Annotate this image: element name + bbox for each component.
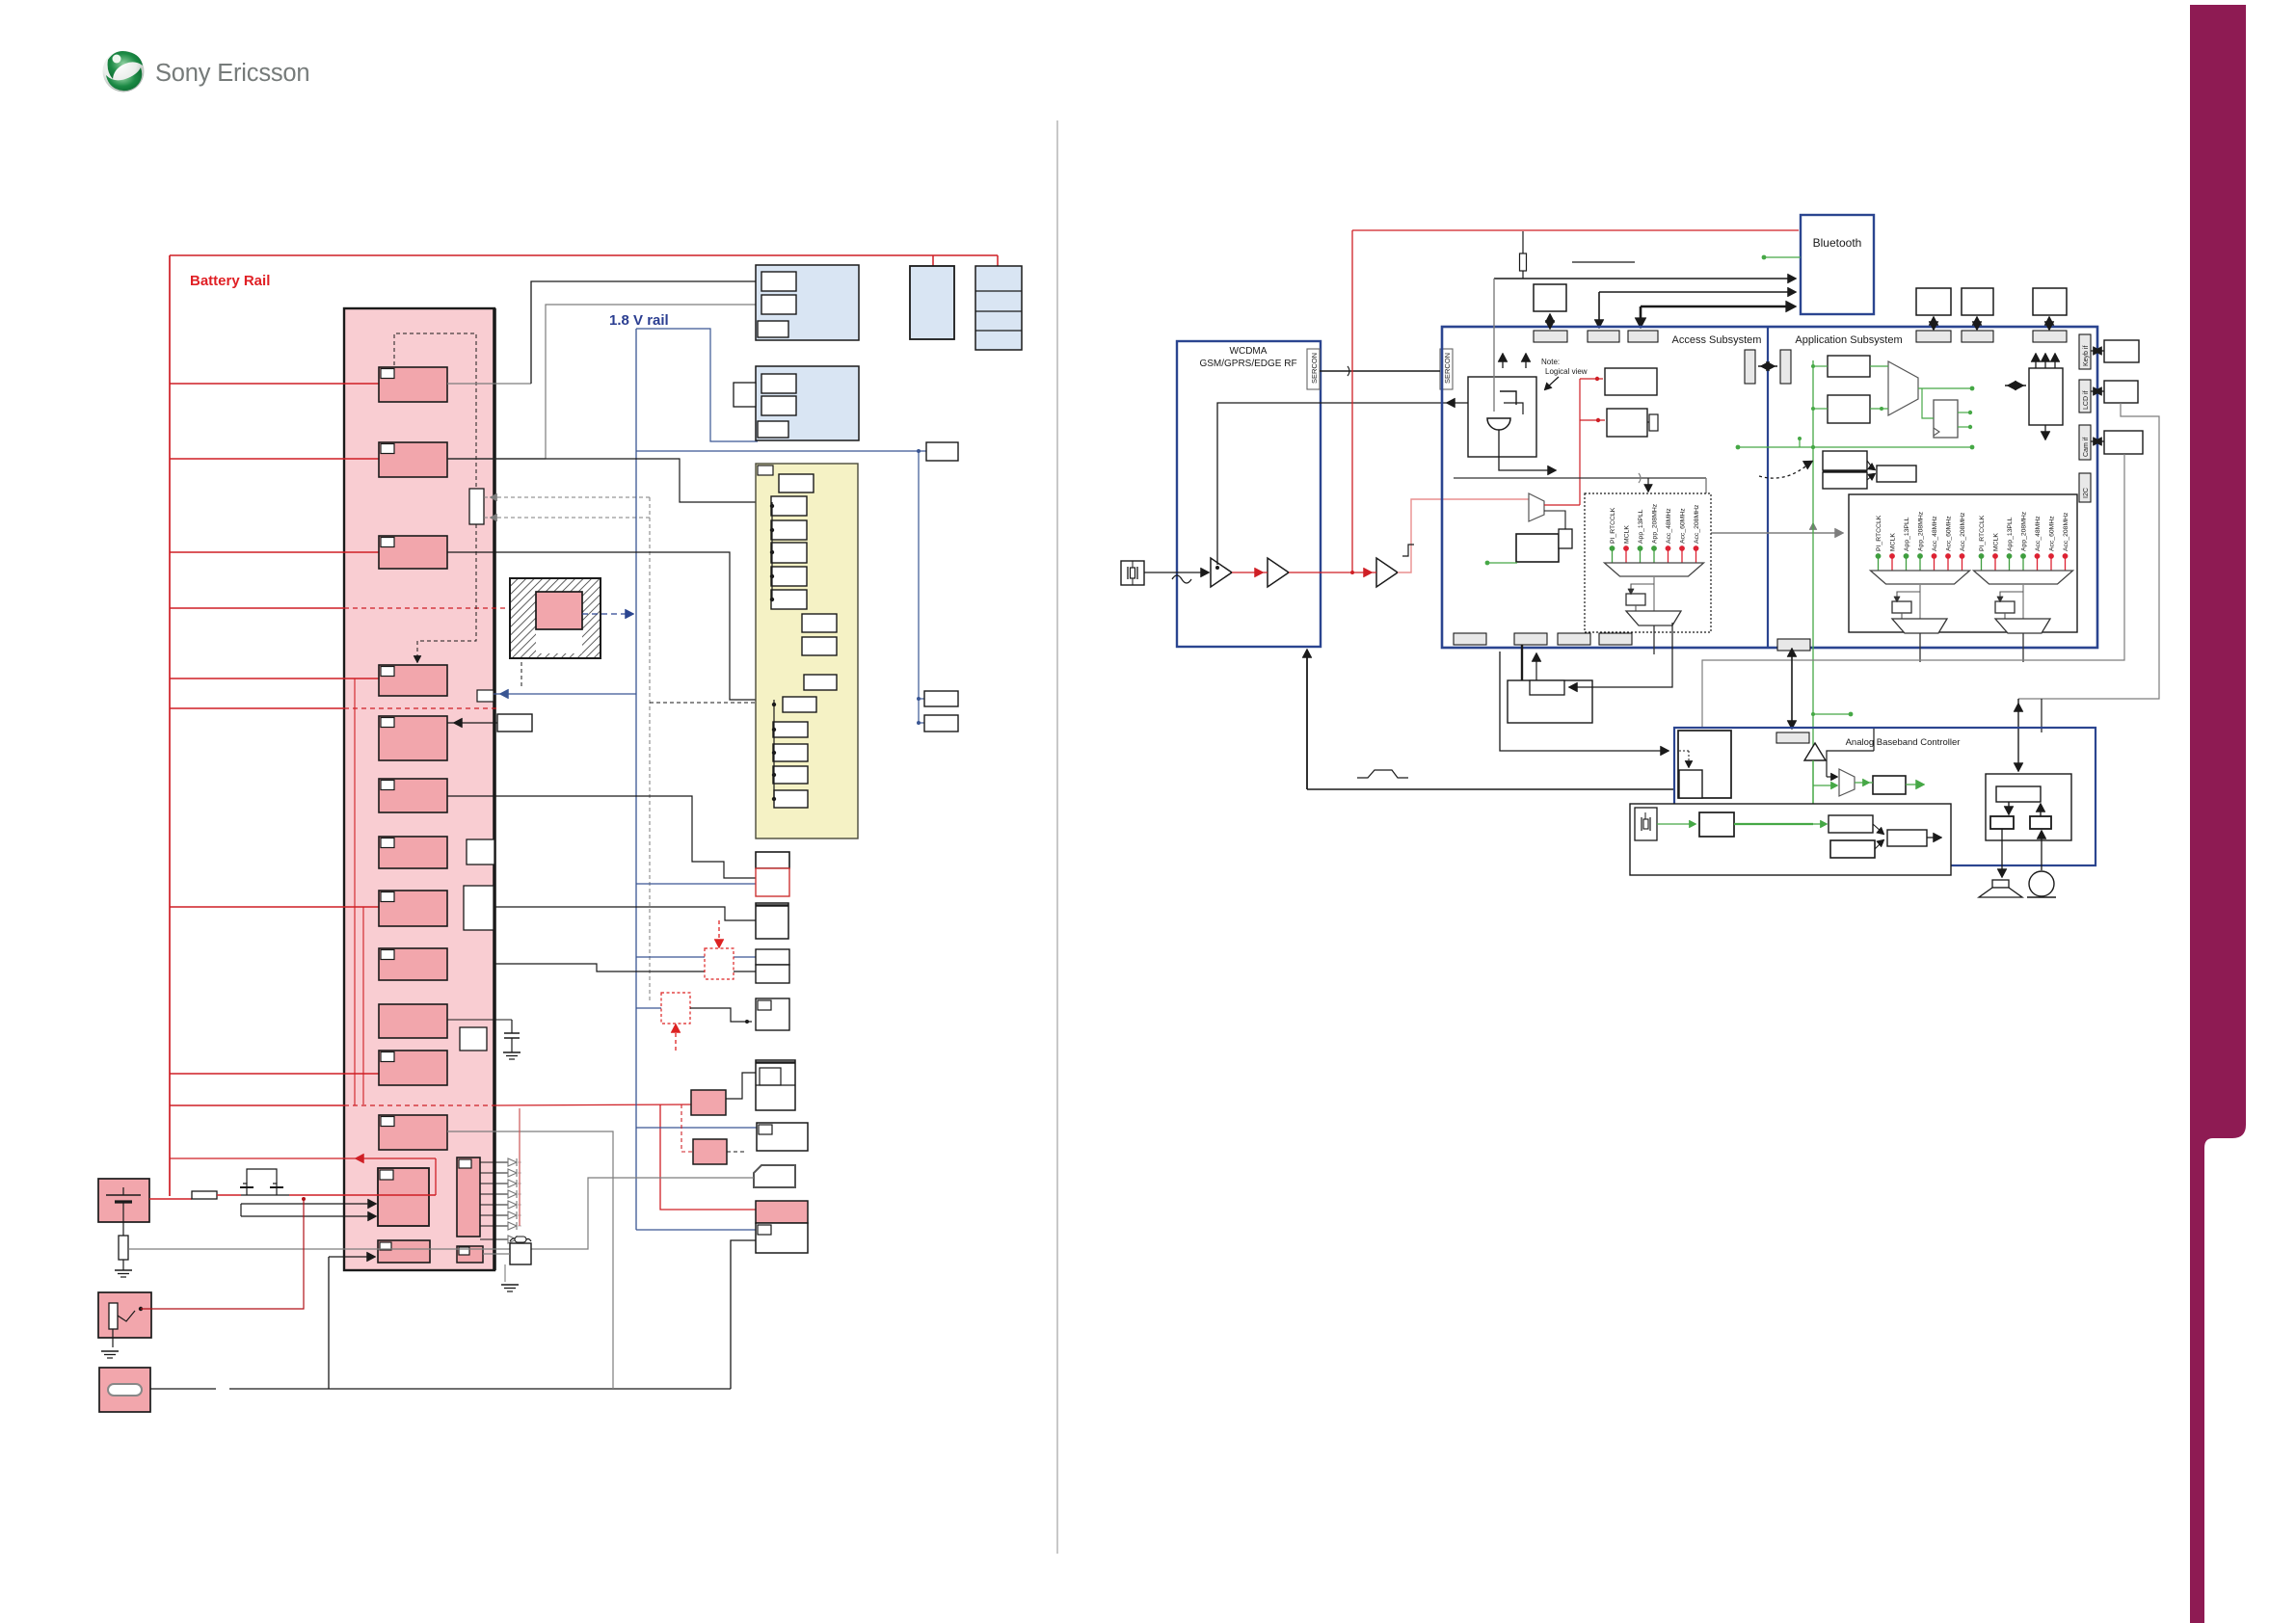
svg-text:Acc_208MHz: Acc_208MHz <box>1960 512 1966 551</box>
SIM data wire <box>150 1388 216 1390</box>
clock gate logic box <box>1468 377 1536 457</box>
system connector pink <box>756 1201 808 1223</box>
PMU block background <box>344 308 494 1270</box>
wire regulator1 to memory block <box>447 383 531 385</box>
SIM holder box <box>99 1368 150 1412</box>
battery rail top bus <box>170 254 998 256</box>
red dashed arrow into option box 2 <box>675 1027 677 1051</box>
red clock net vertical <box>1579 379 1581 505</box>
app clock generator 1 mux trapezoid <box>1871 571 1970 584</box>
svg-text:Cam if: Cam if <box>2083 438 2090 457</box>
sleep clock thick stem <box>1521 645 1523 680</box>
SERCON bus wires <box>1320 370 1440 372</box>
bottom pad application <box>1777 639 1810 651</box>
PMU regulator 6 <box>379 779 447 812</box>
svg-text:Analog Baseband Controller: Analog Baseband Controller <box>1846 737 1961 748</box>
app osc box A1 <box>1828 356 1870 377</box>
PMU bottom regulator <box>378 1240 430 1263</box>
mic wire <box>2041 833 2042 870</box>
svg-text:SERCON: SERCON <box>1443 353 1452 384</box>
Sony Ericsson logo ball <box>103 51 145 93</box>
dashed control from backup cell <box>521 622 532 686</box>
net stub line <box>1572 261 1635 263</box>
green taps to osc boxes <box>1813 365 1828 367</box>
PMU regulator 7 <box>379 837 447 868</box>
box S3 <box>1877 466 1916 482</box>
memory ctrl tall box <box>2029 368 2063 425</box>
svg-text:Acc_60MHz: Acc_60MHz <box>1680 508 1687 544</box>
dashed control to regulator4 <box>417 524 476 659</box>
arrow into access PLL box <box>1647 478 1649 489</box>
audio codec box <box>756 852 789 868</box>
1.8V branch y468 <box>636 450 926 452</box>
bridge double arrow <box>1758 365 1777 367</box>
analog bump glyph <box>1357 770 1408 778</box>
svg-text:Note:: Note: <box>1541 358 1560 366</box>
abb mux input arrow <box>1827 751 1874 777</box>
light red clock wire U3 out <box>1398 499 1529 572</box>
SIM pill symbol <box>108 1384 142 1396</box>
svg-text:PI_RTCCLK: PI_RTCCLK <box>1876 515 1882 551</box>
green wire to Bluetooth <box>1764 256 1801 258</box>
battery sense resistor <box>122 1222 124 1236</box>
ext memory box 2 <box>1962 288 1993 315</box>
app clock generator 1 label stems <box>1878 557 1880 571</box>
red dashed option box 2 <box>661 993 690 1024</box>
thick arrow down into access pad B <box>1640 306 1642 324</box>
amp left small box <box>1990 816 2014 829</box>
audio if box <box>1829 815 1873 833</box>
RF sub TX1 <box>771 496 807 516</box>
headset jack box <box>98 1292 151 1338</box>
amp mixer box <box>1996 786 2041 802</box>
gray wire LCD loop <box>2018 403 2159 699</box>
gate output down <box>1499 430 1552 470</box>
red clock wire U2-U3 <box>1289 572 1376 573</box>
green bus horizontal <box>1738 446 1972 448</box>
IR box pair <box>756 949 789 965</box>
bottom pads access <box>1454 633 1486 645</box>
memory card box <box>757 1123 808 1151</box>
TCXO double arrow <box>1549 315 1551 327</box>
wire SIM reg to keypad <box>726 1073 756 1099</box>
wire regulator3 feed <box>447 552 774 700</box>
top pads application <box>1916 331 1951 342</box>
svg-text:MCLK: MCLK <box>1993 533 2000 551</box>
access DPLL box <box>1516 534 1559 562</box>
PMU regulator 9 <box>379 948 447 980</box>
svg-text:PI_RTCCLK: PI_RTCCLK <box>1979 515 1986 551</box>
1.8V rail top branch <box>636 329 758 441</box>
svg-text:App_208MHz: App_208MHz <box>1652 503 1659 544</box>
keypad box <box>756 1060 795 1110</box>
LED anode red bus <box>519 1108 521 1226</box>
PMU LED driver <box>457 1157 480 1237</box>
wire LED driver to NET <box>447 1131 613 1389</box>
svg-text:SERCON: SERCON <box>1310 353 1319 384</box>
red net to box R2 <box>1580 419 1605 421</box>
note arrow <box>1547 377 1559 387</box>
app osc box A2 <box>1828 395 1870 423</box>
battery rail drop to battery cell box <box>997 255 999 266</box>
RF supply connector A <box>771 502 773 599</box>
app clock generator 1 divider box <box>1897 592 1920 599</box>
gate inner wiring <box>1500 391 1516 405</box>
rail dashed feed to backup cell <box>170 607 344 609</box>
baseband main box <box>1442 327 2097 648</box>
gray line into gate <box>1493 279 1495 412</box>
vref box <box>926 442 958 461</box>
battery positive wire <box>149 1198 192 1200</box>
microphone symbol <box>2029 871 2054 896</box>
green audio clock 2 thick <box>1734 823 1813 825</box>
sleep clock inner box <box>1530 680 1564 695</box>
battery rail vertical bus <box>169 255 171 1196</box>
PMU sense box y716 <box>477 690 494 702</box>
battery pack box <box>98 1179 149 1222</box>
svg-text:Acc_60MHz: Acc_60MHz <box>2049 516 2056 551</box>
charger IC box <box>910 266 954 339</box>
red supply wire to Bluetooth <box>1352 229 1799 231</box>
WCDMA RF box <box>1177 341 1321 647</box>
PMU regulator 4 <box>379 665 447 696</box>
1.8V branch y993 <box>636 956 705 958</box>
ext memory box 3 <box>2033 288 2067 315</box>
green audio clock 1 <box>1657 823 1694 825</box>
SIM regulator pink <box>691 1090 726 1115</box>
audio codec box2 <box>1830 840 1875 858</box>
wire switches to charger <box>289 1194 436 1196</box>
access clock generator label stems <box>1612 549 1614 563</box>
dotted arrow sequencer <box>1688 751 1690 765</box>
speaker symbol <box>1992 880 2009 888</box>
ext memory box 1 <box>1916 288 1951 315</box>
dashed gray vertical x674 <box>649 497 651 1002</box>
keyboard diamond link <box>2091 350 2104 352</box>
audio pll box <box>1699 812 1734 837</box>
wire gate to Bluetooth <box>1494 278 1793 279</box>
arrow down into access pad A <box>1598 292 1600 324</box>
1.8V branch y1276 <box>636 1229 756 1231</box>
display block <box>756 366 859 440</box>
app clock generator 2 output funnel <box>1995 619 2050 633</box>
right maroon sidebar <box>2190 5 2246 1623</box>
box R2 attach <box>1649 414 1658 431</box>
sysclk feedback wire <box>1217 403 1468 565</box>
power MOSFET pair <box>241 1194 289 1196</box>
PMU regulator 2 <box>379 442 447 477</box>
thick arrow baseband to abb <box>1791 652 1793 726</box>
wire regulator6 to connector <box>447 796 756 878</box>
PMU regulator 5 <box>379 716 447 760</box>
PMU charger block <box>378 1168 429 1226</box>
PMU regulator 1 <box>379 367 447 402</box>
abb top pad <box>1776 732 1809 743</box>
external reference box <box>497 714 532 732</box>
1.8V taps to ext boxes <box>919 698 924 700</box>
svg-text:Acc_48MHz: Acc_48MHz <box>1666 508 1672 544</box>
audio crystal <box>1635 808 1657 840</box>
app clock generator 2 mux trapezoid <box>1974 571 2073 584</box>
rail feed wire y398 <box>170 383 379 385</box>
svg-text:Application Subsystem: Application Subsystem <box>1795 334 1902 346</box>
dashed black SIM link <box>727 1151 747 1153</box>
headset detect wire red <box>141 1199 304 1309</box>
accessory box <box>756 903 788 939</box>
sine symbol <box>1172 575 1191 583</box>
thick wire Bluetooth clock out <box>1641 306 1793 308</box>
RF supply connector B <box>773 700 775 799</box>
green arrow into audio if <box>1813 823 1825 825</box>
vibra ground <box>504 1264 506 1282</box>
TCXO box above <box>1534 284 1566 311</box>
red vertical charger branch x685 <box>660 1104 756 1210</box>
rail feed wire y941 <box>170 906 379 908</box>
app clock generator 2 mux output line <box>2022 584 2024 619</box>
memory sub NOR <box>761 272 796 291</box>
access clock mux <box>1529 493 1544 521</box>
dashed trim line y516 <box>484 496 650 498</box>
abb sequencer box <box>1678 731 1731 798</box>
box R2 <box>1607 409 1647 437</box>
app flipflop F1 <box>1934 400 1958 438</box>
LCD box <box>2104 381 2138 403</box>
SIM wire branch x341 <box>328 1257 330 1389</box>
PMU regulator 11 <box>379 1051 447 1085</box>
RF sub TX2 <box>771 520 807 540</box>
resistor divider R10 <box>1522 231 1524 253</box>
mic wire up <box>2041 699 2042 732</box>
red net to box R1 <box>1580 378 1603 380</box>
green vertical main <box>1812 360 1814 824</box>
vibra motor <box>510 1243 531 1264</box>
green pcm out <box>1906 784 1921 785</box>
LED diode low <box>480 1238 508 1240</box>
sleep clock up arrow <box>1535 656 1537 680</box>
system connector white <box>756 1223 808 1253</box>
PMU regulator 10 <box>379 1004 447 1038</box>
SIM card shape <box>754 1165 795 1187</box>
Keyb if tab <box>2079 334 2091 369</box>
I2C tab <box>2079 473 2091 502</box>
application clock box <box>1849 494 2077 632</box>
wire R2 to switches <box>217 1194 241 1196</box>
display sub sensor <box>758 421 788 438</box>
dashed blue wire backup cell to rail <box>582 613 628 615</box>
RF sub RX2 <box>773 722 808 737</box>
LED diodes <box>480 1161 508 1163</box>
memctrl left double arrow <box>2005 385 2026 386</box>
gate box up arrows <box>1502 357 1504 368</box>
1.8V branch x953 down <box>918 451 920 723</box>
display sub backlight <box>761 396 796 415</box>
bus bridge bars <box>1745 350 1755 384</box>
memory sub NAND <box>761 295 796 314</box>
current sense resistor R2 <box>192 1191 217 1199</box>
wire regulator2 to memory block <box>447 458 546 460</box>
WCDMA bottom arrow <box>1306 652 1308 789</box>
ext load box y742 <box>924 715 958 732</box>
red wire y1202 with arrow <box>170 1157 436 1159</box>
gray battery sense wire <box>128 1248 405 1250</box>
display sub LCD <box>761 374 796 393</box>
rail feed wire y704 <box>170 678 379 679</box>
arrow reference to regulator 5 <box>447 722 497 724</box>
memory sub SDRAM <box>758 321 788 337</box>
memory block <box>756 265 859 340</box>
access clock generator mux trapezoid <box>1605 563 1704 576</box>
svg-text:Acc_48MHz: Acc_48MHz <box>1932 516 1938 551</box>
svg-text:MCLK: MCLK <box>1624 525 1631 544</box>
red vertical x452 <box>435 1158 437 1195</box>
RF sub synth1 <box>802 614 837 632</box>
svg-text:LCD if: LCD if <box>2083 390 2090 410</box>
access clock generator mux output line <box>1653 576 1655 611</box>
decoupling capacitor C1 <box>447 1019 512 1021</box>
PMU regulator 8 <box>379 891 447 926</box>
wire into sleep clock <box>1571 623 1672 687</box>
svg-text:MCLK: MCLK <box>1890 533 1897 551</box>
RF sub TX4 <box>771 567 807 586</box>
svg-text:Acc_48MHz: Acc_48MHz <box>2035 516 2042 551</box>
green clock nets app <box>1870 365 1888 367</box>
SERCON tab baseband <box>1440 349 1453 389</box>
wire option2 to camera box <box>690 1008 752 1022</box>
app clock generator 2 divider box <box>2000 592 2023 599</box>
SIM level shifter pink <box>693 1139 727 1164</box>
1.8V branch y917 <box>636 883 756 885</box>
camera box <box>756 998 789 1030</box>
memctrl up arrows <box>2035 357 2037 368</box>
camera diamond link <box>2091 440 2104 442</box>
audio out arrow <box>1927 837 1938 838</box>
svg-text:PI_RTCCLK: PI_RTCCLK <box>1610 507 1616 544</box>
ext load box y717 <box>924 691 958 706</box>
wire regulator2 to display supply <box>447 459 772 502</box>
boot dashed arc <box>1759 463 1810 478</box>
rail feed wire y476 <box>170 458 379 460</box>
sleep clock box <box>1508 680 1592 723</box>
app clock generator 1 mux output line <box>1919 584 1921 619</box>
RF sub synth2 <box>802 637 837 655</box>
AND gate symbol <box>1487 418 1510 430</box>
Bluetooth box <box>1801 215 1874 314</box>
wire regulator8 to audio codec <box>494 907 756 920</box>
access clock generator divider box <box>1631 584 1654 592</box>
crystal X1 <box>1121 561 1144 585</box>
svg-text:Acc_208MHz: Acc_208MHz <box>1694 504 1700 544</box>
1.8V rail vertical bus <box>635 329 637 1230</box>
boot ram box S2 <box>1823 472 1867 489</box>
svg-text:App_208MHz: App_208MHz <box>1918 511 1925 551</box>
red clock wire U1-U2 <box>1232 572 1268 573</box>
1.8V branch y720 sense <box>494 693 636 695</box>
wire system connector ground loop <box>731 1240 756 1389</box>
battery cell box <box>975 266 1022 350</box>
wire crystal to buffer <box>1144 572 1206 573</box>
PMU regulator 12 <box>379 1115 447 1150</box>
green vertical into abb <box>1812 760 1814 824</box>
app clock mux M2 <box>1888 361 1918 415</box>
audio codec red box <box>756 868 789 896</box>
PMU output box y1066 <box>460 1027 487 1051</box>
audio out box <box>1887 830 1927 846</box>
wire vibra <box>483 1253 510 1255</box>
SERCON tab WCDMA <box>1307 349 1320 389</box>
svg-text:WCDMA: WCDMA <box>1230 346 1268 357</box>
green into mux <box>1813 785 1835 786</box>
subsystem divider <box>1767 327 1769 648</box>
Cam if tab <box>2079 425 2091 460</box>
ground battery <box>115 1269 132 1271</box>
red wire mux out <box>1544 504 1580 506</box>
svg-text:App_13PLL: App_13PLL <box>1638 509 1644 544</box>
double arrow into audio amp box <box>2017 699 2019 770</box>
buffer U3 <box>1376 558 1398 587</box>
RF sub PA <box>779 474 814 492</box>
dashed trim line y537 <box>484 517 650 519</box>
center page divider <box>1056 120 1058 1554</box>
amp right small box <box>2030 816 2051 829</box>
battery rail drop to charger IC box <box>932 255 934 266</box>
PMU vibrator driver <box>457 1246 483 1263</box>
green mux to pcm <box>1855 782 1873 784</box>
dashed red SIM link <box>681 1104 693 1152</box>
RF sub TX3 <box>771 543 807 563</box>
RF sub RX3 <box>773 744 808 761</box>
PMU output box y871 <box>467 839 494 865</box>
PMU trim resistor box <box>469 489 484 524</box>
buffer U2 <box>1268 558 1289 587</box>
audio codec outer box <box>1630 804 1951 875</box>
rail internal vertical x368 <box>354 678 356 1105</box>
wire regulator9 to connector <box>494 964 756 971</box>
headset jack symbol <box>109 1303 118 1329</box>
PMU regulator 3 <box>379 536 447 569</box>
access clock generator output funnel <box>1626 611 1681 625</box>
red supply vertical x1403 <box>1351 230 1353 572</box>
pulse glyph on clock wire <box>1402 545 1414 556</box>
svg-text:Logical view: Logical view <box>1545 367 1588 376</box>
rail feed wire y573 <box>170 551 379 553</box>
abb pcm box M4 <box>1873 776 1906 794</box>
speaker wire <box>2001 829 2003 875</box>
LCD if tab <box>2079 380 2091 412</box>
RF sub RX top <box>804 675 837 690</box>
memctrl down arrow <box>2044 425 2046 437</box>
abb right wire stub <box>1873 729 1875 751</box>
green junction stub <box>1813 713 1851 715</box>
gray wire camera loop <box>1702 454 2124 728</box>
svg-text:I2C: I2C <box>2083 488 2090 498</box>
speaker amp box <box>1986 774 2071 840</box>
arrow into bottom regulator <box>329 1256 372 1258</box>
wire pad to Bluetooth <box>1599 291 1793 293</box>
rail dashed feed y735 <box>170 707 344 709</box>
access PLL dotted box <box>1585 493 1711 632</box>
RF sub TX5 <box>771 590 807 609</box>
app clock generator 2 label stems <box>1981 557 1983 571</box>
app clock generator 1 output funnel <box>1892 619 1947 633</box>
buffer U1 <box>1211 558 1232 587</box>
RF sub RX1 <box>783 697 816 712</box>
rail feed wire y1114 <box>170 1073 379 1075</box>
red dashed arrow into option box 1 <box>718 920 720 945</box>
analog baseband box <box>1674 728 2096 865</box>
green tap access <box>1487 562 1517 564</box>
boot rom box S1 <box>1823 451 1867 470</box>
PMU output box y919 <box>464 886 494 930</box>
